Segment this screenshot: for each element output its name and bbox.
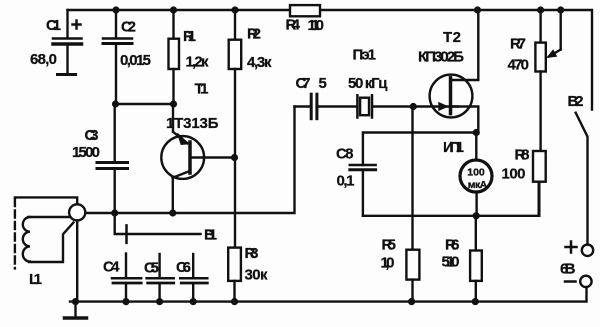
svg-text:R2: R2 bbox=[247, 26, 261, 43]
svg-text:R4: R4 bbox=[286, 17, 301, 34]
svg-text:5: 5 bbox=[319, 75, 327, 92]
svg-text:R6: R6 bbox=[445, 237, 460, 254]
svg-text:R5: R5 bbox=[382, 237, 397, 254]
svg-text:R8: R8 bbox=[515, 147, 530, 164]
svg-text:100: 100 bbox=[467, 167, 485, 179]
svg-text:R7: R7 bbox=[510, 36, 526, 53]
svg-text:С4: С4 bbox=[103, 259, 120, 276]
svg-text:С2: С2 bbox=[121, 19, 136, 36]
svg-text:50 кГц: 50 кГц bbox=[348, 75, 388, 92]
svg-text:0,015: 0,015 bbox=[120, 52, 151, 69]
svg-text:С5: С5 bbox=[144, 260, 159, 277]
svg-text:R1: R1 bbox=[183, 28, 196, 45]
svg-text:4,3к: 4,3к bbox=[247, 54, 272, 71]
svg-text:ИП1: ИП1 bbox=[443, 139, 464, 156]
svg-text:110: 110 bbox=[308, 17, 325, 34]
svg-text:1,2к: 1,2к bbox=[186, 54, 209, 71]
svg-text:68,0: 68,0 bbox=[30, 51, 57, 68]
svg-text:1500: 1500 bbox=[72, 144, 100, 161]
svg-text:Т2: Т2 bbox=[443, 29, 461, 46]
svg-text:В1: В1 bbox=[204, 227, 217, 244]
svg-text:С8: С8 bbox=[336, 146, 354, 163]
svg-text:В2: В2 bbox=[568, 93, 584, 110]
svg-text:Т1: Т1 bbox=[195, 81, 209, 98]
svg-text:100: 100 bbox=[502, 166, 526, 183]
svg-text:мкА: мкА bbox=[468, 179, 488, 191]
svg-text:С6: С6 bbox=[176, 259, 191, 276]
svg-text:510: 510 bbox=[442, 254, 460, 271]
svg-text:С1: С1 bbox=[46, 17, 61, 34]
svg-text:L1: L1 bbox=[29, 271, 42, 288]
svg-text:Пэ1: Пэ1 bbox=[353, 47, 377, 64]
svg-text:С3: С3 bbox=[85, 127, 99, 144]
svg-text:1,0: 1,0 bbox=[381, 255, 395, 272]
svg-text:1Т313Б: 1Т313Б bbox=[166, 115, 219, 132]
svg-text:R3: R3 bbox=[245, 245, 259, 262]
svg-text:6В: 6В bbox=[560, 261, 576, 278]
svg-text:0,1: 0,1 bbox=[337, 173, 355, 190]
svg-text:КП302Б: КП302Б bbox=[418, 49, 464, 66]
svg-text:470: 470 bbox=[508, 57, 530, 74]
svg-text:30к: 30к bbox=[245, 267, 268, 284]
svg-text:С7: С7 bbox=[296, 75, 311, 92]
